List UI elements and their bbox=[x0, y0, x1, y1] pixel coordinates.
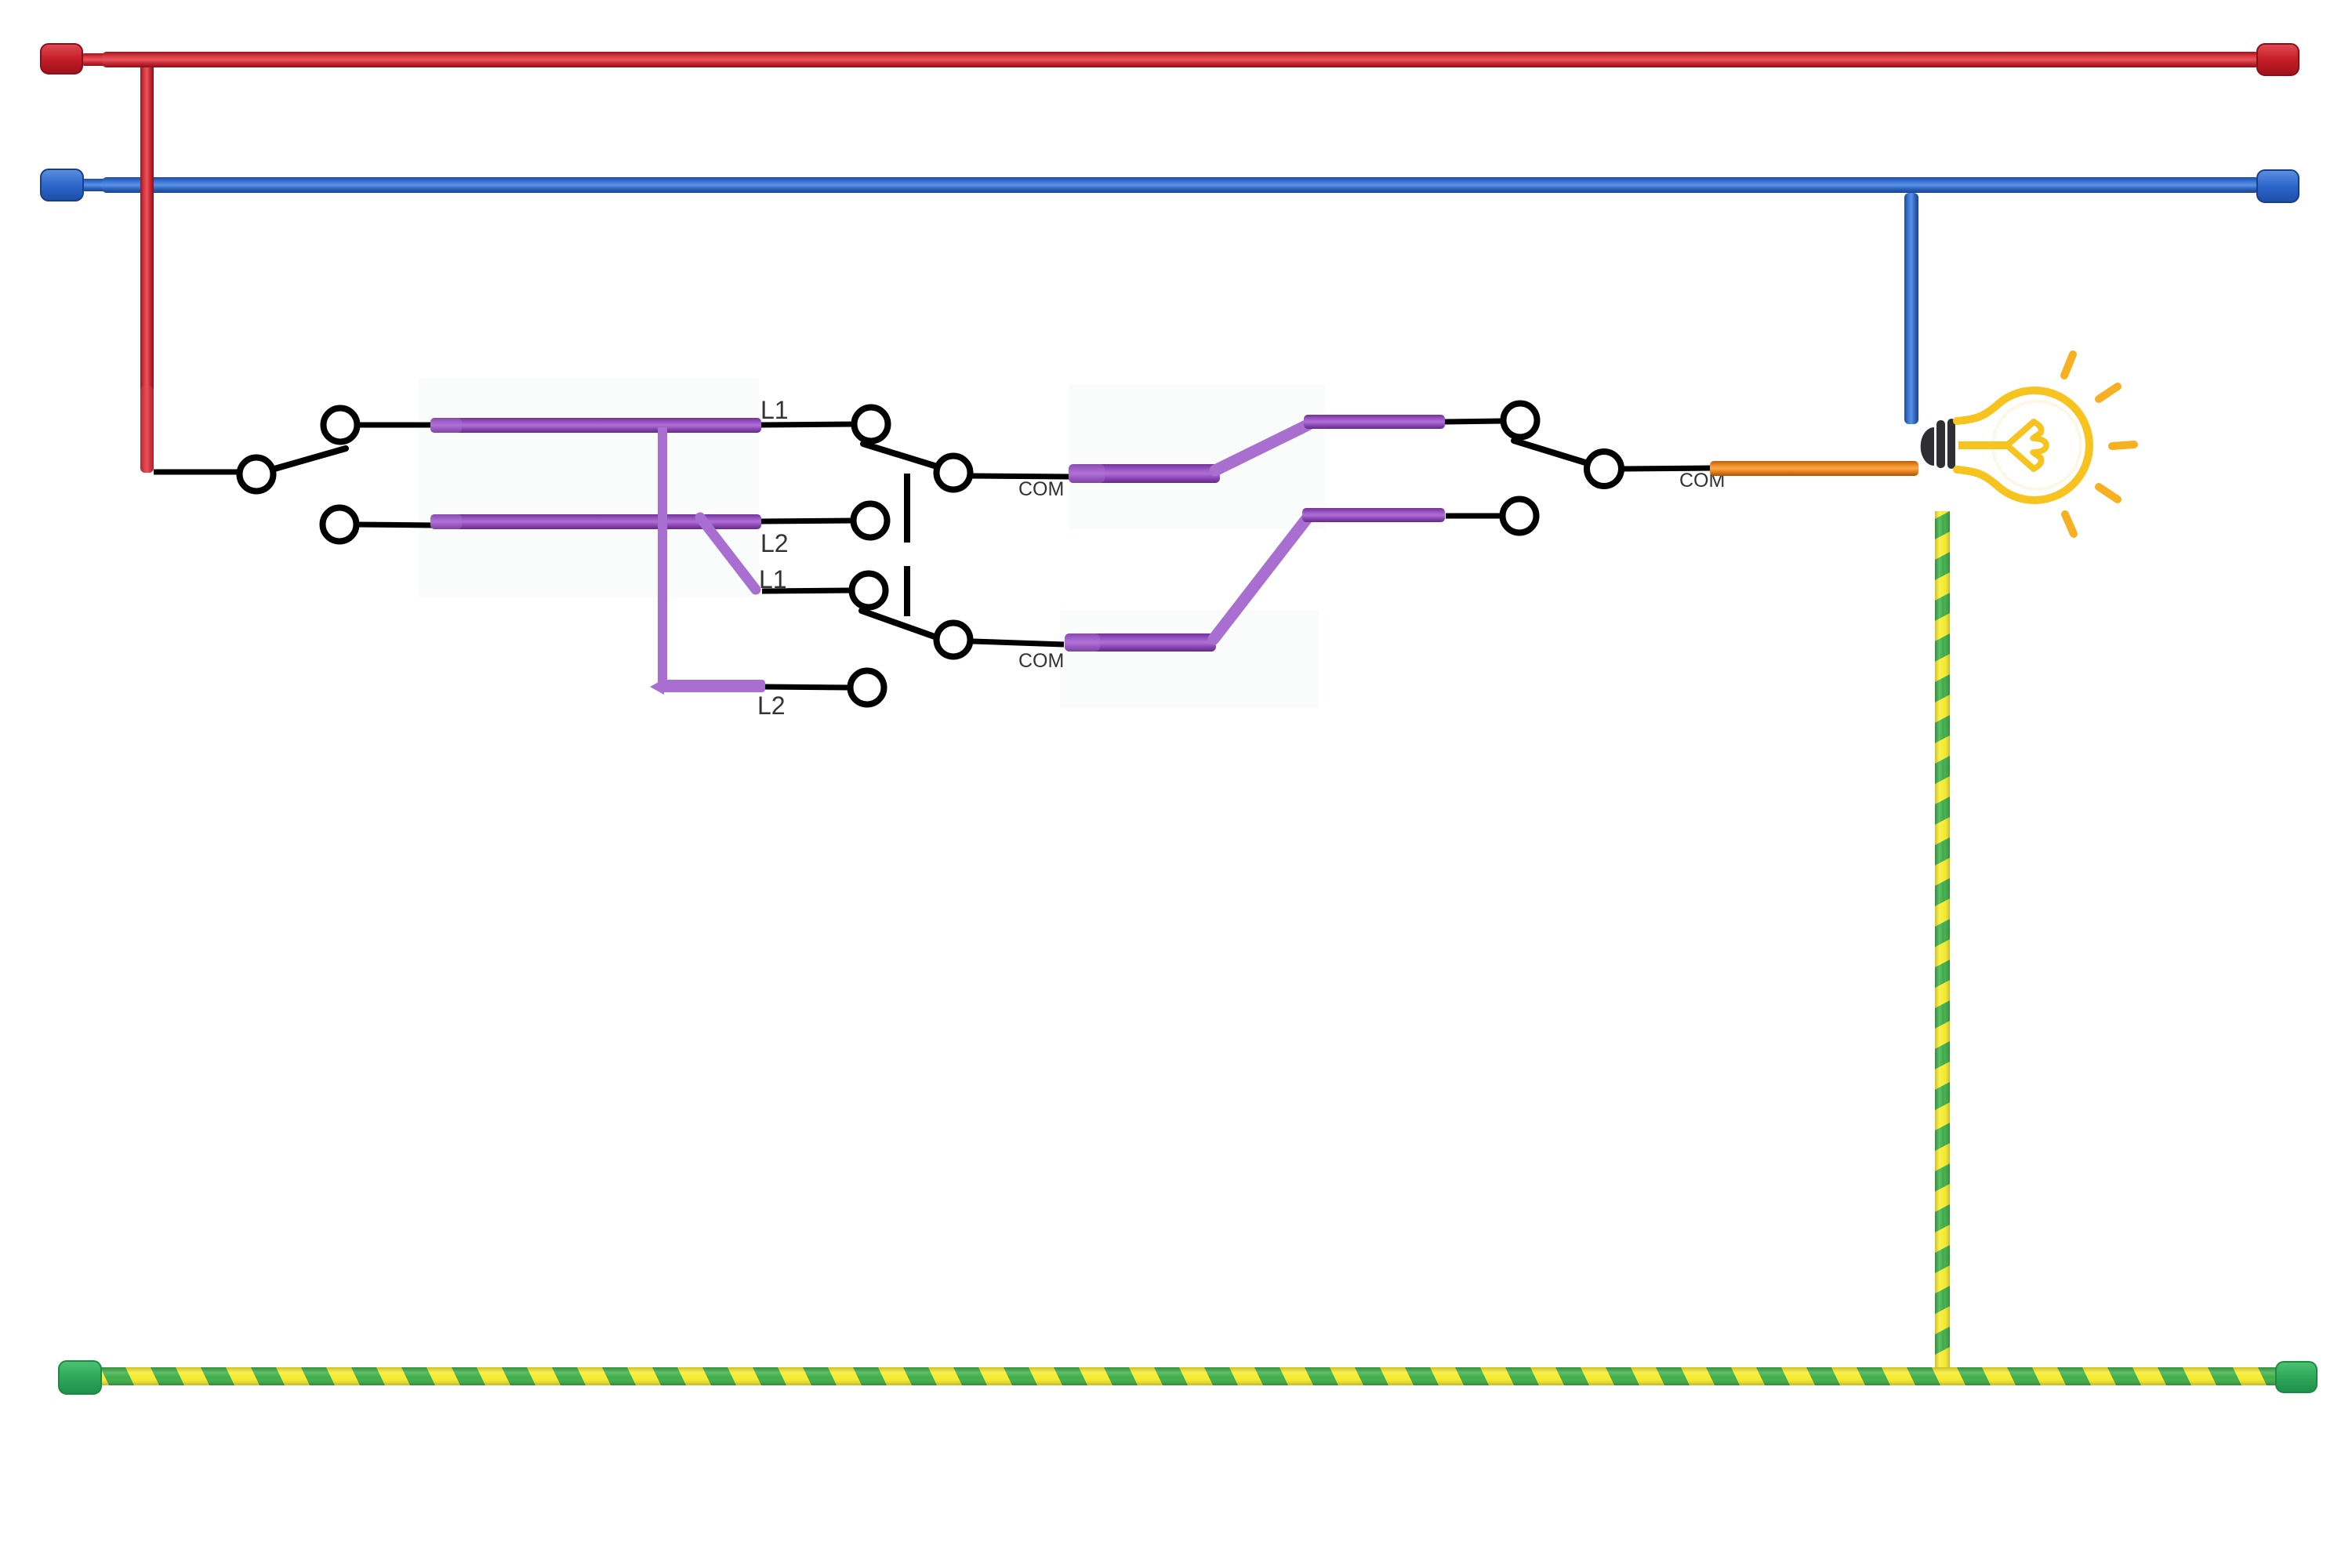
wire lead to R-L2 bbox=[1446, 514, 1502, 519]
intermediate switch gang B blade bbox=[862, 611, 935, 637]
red cap right bbox=[2257, 44, 2299, 75]
intermediate switch A-COM terminal bbox=[937, 456, 971, 490]
bulb inner glow bbox=[1993, 401, 2081, 489]
blue drop wire to lamp bbox=[1904, 193, 1918, 424]
lamp socket bar 1 bbox=[1936, 420, 1945, 468]
purple vertical drop bbox=[658, 427, 667, 686]
bulb ray bottom bbox=[2065, 514, 2074, 534]
earth drop wire from lamp bbox=[1935, 511, 1950, 1374]
red cap left bbox=[41, 44, 82, 74]
svg-text:L2: L2 bbox=[760, 529, 789, 557]
earth cap right bbox=[2276, 1362, 2317, 1392]
switch SW2 L1 terminal bbox=[1504, 404, 1537, 437]
wire lead to A-L2 bbox=[761, 521, 855, 521]
wire lead from B-COM bbox=[973, 641, 1064, 644]
intermediate switch A-L2 terminal bbox=[854, 504, 887, 538]
wire lead to B-L1 bbox=[762, 590, 852, 591]
switched live wire to lamp (orange) bbox=[1710, 461, 1918, 476]
lamp socket bar 2 bbox=[1947, 419, 1955, 469]
svg-text:COM: COM bbox=[1018, 650, 1064, 672]
switch SW1 COM terminal bbox=[240, 458, 274, 492]
intermediate switch B-L1 terminal bbox=[852, 574, 886, 608]
live busbar L (red) bbox=[81, 52, 2259, 67]
svg-text:COM: COM bbox=[1018, 478, 1064, 500]
svg-text:L1: L1 bbox=[760, 396, 789, 424]
purple wire A with step bbox=[1069, 415, 1445, 483]
bulb ray top bbox=[2064, 354, 2073, 376]
wire lead from A-COM bbox=[972, 476, 1069, 477]
mechanical link line lower bbox=[904, 566, 910, 616]
switch SW1 L1 terminal bbox=[324, 408, 358, 442]
red drop wire bbox=[140, 55, 154, 473]
switch SW2 COM terminal bbox=[1587, 452, 1621, 486]
blue cap left bbox=[41, 169, 83, 201]
earth cap left bbox=[59, 1361, 101, 1394]
purple wire B with step bbox=[1065, 508, 1445, 652]
intermediate switch A-L1 terminal bbox=[855, 408, 888, 441]
neutral busbar N (blue) bbox=[81, 177, 2259, 193]
switch SW2 blade bbox=[1514, 441, 1585, 463]
mechanical link line upper bbox=[904, 474, 910, 543]
wire lead to A-L1 bbox=[761, 424, 855, 425]
bulb filament V bbox=[2007, 422, 2034, 469]
wire SW1 L1 lead bbox=[358, 423, 434, 428]
purple cross horizontal to L2 bbox=[650, 679, 765, 695]
lamp socket cap bbox=[1921, 427, 1934, 466]
strapper wire bottom (purple) bbox=[430, 514, 761, 529]
earth busbar E (green/yellow) bbox=[100, 1367, 2277, 1385]
bulb ray right bbox=[2112, 445, 2134, 446]
wire lead to B-L2 bbox=[765, 687, 851, 688]
wire SW1 L2 lead bbox=[358, 524, 434, 525]
wire lead from SW2 COM bbox=[1624, 468, 1711, 469]
strapper wire top (purple) bbox=[430, 418, 761, 433]
switch SW1 blade bbox=[274, 448, 346, 469]
switch SW2 L2 terminal bbox=[1503, 499, 1537, 533]
purple diagonal branch to L1 bbox=[700, 517, 756, 590]
bulb filament stem bbox=[1958, 441, 2009, 449]
wire: feed to switch 1 bbox=[154, 470, 241, 475]
intermediate switch gang A blade bbox=[863, 444, 937, 466]
blue cap right bbox=[2257, 170, 2299, 202]
intermediate switch B-COM terminal bbox=[937, 623, 971, 657]
wire lead to R-L1 bbox=[1445, 421, 1503, 422]
bulb filament zigzag bbox=[2033, 422, 2046, 469]
intermediate switch B-L2 terminal bbox=[851, 671, 884, 705]
bulb ray lower-right bbox=[2099, 487, 2118, 499]
svg-text:L2: L2 bbox=[757, 691, 786, 720]
switch SW1 L2 terminal bbox=[323, 508, 357, 542]
bulb ray upper-right bbox=[2099, 387, 2118, 399]
bulb outline bbox=[1957, 390, 2089, 500]
